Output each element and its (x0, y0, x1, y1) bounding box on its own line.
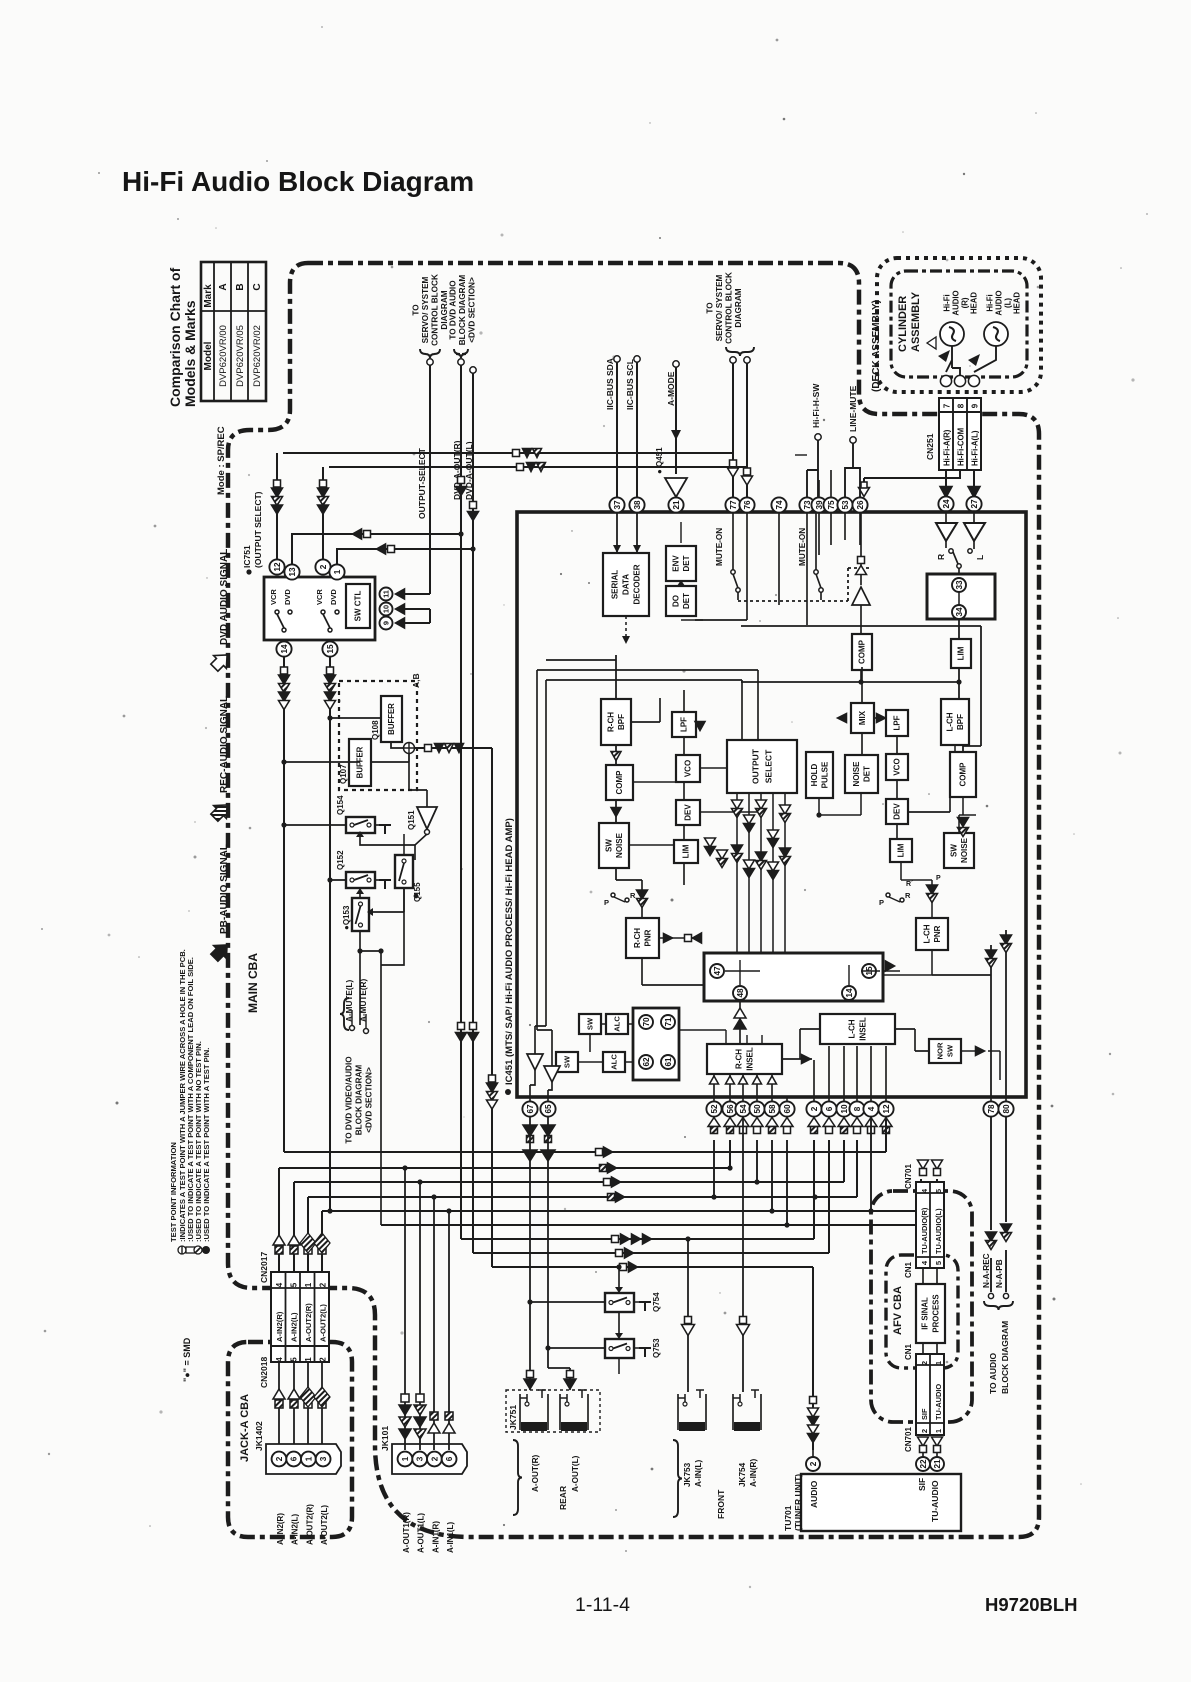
svg-text:SERIAL: SERIAL (611, 570, 620, 599)
svg-text:A-OUT(R): A-OUT(R) (531, 1454, 540, 1492)
svg-text:7: 7 (943, 403, 952, 408)
svg-text:CN701: CN701 (904, 1427, 913, 1452)
bus test points (513, 450, 520, 457)
wire mix lpf (862, 667, 950, 839)
wire A-MODE (673, 361, 679, 367)
svg-text:Q154: Q154 (336, 795, 345, 815)
svg-text:A: A (218, 283, 229, 290)
svg-text:<DVD SECTION>: <DVD SECTION> (468, 277, 477, 343)
wire buffers (330, 718, 409, 762)
TU701 tuner box (801, 1474, 961, 1531)
NOISE DET box (845, 755, 878, 793)
wire bus 1239 (461, 1140, 814, 1239)
svg-text:CONTROL BLOCK: CONTROL BLOCK (431, 274, 440, 346)
svg-text:DET: DET (682, 593, 691, 609)
svg-text:77: 77 (729, 500, 738, 510)
wire bus 1267 (492, 1267, 813, 1450)
svg-text:A-IN2(L): A-IN2(L) (291, 1514, 300, 1545)
buffer dotted box A B (339, 681, 417, 790)
wire pin verticals down (714, 1140, 787, 1225)
wire sw noise r (959, 815, 976, 833)
wire 34 down (958, 619, 960, 699)
wire DVD-A-OUT R (460, 365, 462, 1239)
svg-text:DEV: DEV (893, 803, 902, 820)
ENV DET box (666, 546, 696, 581)
svg-text:8: 8 (957, 403, 966, 408)
svg-text:LIM: LIM (682, 844, 691, 858)
servo brace mid (726, 347, 754, 356)
svg-text:SERVO/ SYSTEM: SERVO/ SYSTEM (715, 274, 724, 341)
svg-text:IIC-BUS SCL: IIC-BUS SCL (625, 359, 635, 410)
SW CTL box (346, 584, 370, 628)
svg-text:2: 2 (809, 1461, 818, 1466)
wire bpf mesh left (546, 655, 616, 880)
svg-text:DECODER: DECODER (633, 564, 642, 604)
transistor Q152 (346, 872, 375, 888)
svg-text:33: 33 (955, 580, 964, 590)
svg-text:A-OUT1(L): A-OUT1(L) (417, 1513, 426, 1553)
bus arrows left (604, 1147, 613, 1157)
svg-text:Q108: Q108 (371, 720, 380, 740)
transistor Q107 buffer (349, 739, 371, 786)
svg-text:A,B: A,B (411, 673, 421, 688)
wire IC751 top (277, 453, 473, 564)
svg-text:BLOCK DIAGRAM: BLOCK DIAGRAM (1000, 1321, 1010, 1394)
svg-text:PNR: PNR (933, 925, 942, 942)
svg-text:DIAGRAM: DIAGRAM (734, 288, 743, 327)
svg-text:Model: Model (203, 341, 214, 370)
svg-text:R: R (630, 891, 636, 900)
svg-text:B: B (235, 283, 246, 290)
svg-text:4: 4 (275, 1357, 284, 1362)
wire bus output select top (283, 452, 733, 454)
JK101 test points (401, 1394, 409, 1402)
svg-text:21: 21 (933, 1459, 942, 1469)
svg-text:SW CTL: SW CTL (354, 591, 363, 622)
IC751 pins bottom (276, 641, 291, 656)
svg-text:CN2017: CN2017 (259, 1252, 269, 1283)
wire to front jacks (688, 1117, 743, 1392)
svg-text:14: 14 (280, 644, 289, 654)
svg-text:8: 8 (853, 1106, 862, 1111)
svg-text:60: 60 (783, 1104, 792, 1114)
svg-text:JK751: JK751 (508, 1405, 518, 1430)
svg-text:A-IN2(R): A-IN2(R) (275, 1311, 284, 1342)
svg-text:1-11-4: 1-11-4 (575, 1594, 630, 1616)
wire CN2017 stems (279, 1254, 322, 1272)
svg-text:BLOCK DIAGRAM: BLOCK DIAGRAM (458, 275, 467, 346)
DECK ASSEMBLY frame (877, 258, 1041, 392)
svg-text:SIF: SIF (917, 1478, 927, 1491)
R-CH INSEL box (707, 1044, 782, 1074)
svg-text:DVP620VR/02: DVP620VR/02 (252, 325, 263, 387)
IC451 top pins (609, 497, 624, 512)
svg-text:2: 2 (275, 1456, 284, 1461)
svg-text:6: 6 (445, 1456, 454, 1461)
servo brace left (420, 349, 440, 358)
svg-text:SELECT: SELECT (763, 749, 773, 783)
svg-text:2: 2 (810, 1106, 819, 1111)
svg-text:L-CH: L-CH (848, 1019, 857, 1038)
svg-text:A-OUT2(R): A-OUT2(R) (304, 1303, 313, 1342)
svg-text:JK101: JK101 (380, 1426, 390, 1451)
wire outputs select down (737, 793, 785, 953)
svg-text::USED TO INDICATE A TEST POINT: :USED TO INDICATE A TEST POINT WITH A TE… (202, 1048, 211, 1242)
svg-text:JACK-A CBA: JACK-A CBA (239, 1394, 251, 1462)
svg-text:DVD AUDIO SIGNAL: DVD AUDIO SIGNAL (219, 549, 230, 645)
connector JK1402 (266, 1444, 341, 1474)
svg-text:N-A-REC: N-A-REC (982, 1253, 991, 1288)
svg-text:COMP: COMP (615, 770, 624, 795)
svg-text:Q107: Q107 (339, 764, 348, 784)
triangle amps left (527, 1054, 543, 1070)
MAIN CBA frame (228, 263, 1039, 1537)
svg-text:R-CH: R-CH (606, 712, 615, 732)
svg-text:Hi-Fi-COM: Hi-Fi-COM (957, 428, 966, 466)
svg-text:Hi-Fi Audio Block Diagram: Hi-Fi Audio Block Diagram (122, 166, 474, 197)
svg-text:(R): (R) (960, 297, 969, 308)
svg-text:NOISE: NOISE (615, 832, 624, 858)
svg-text:74: 74 (775, 500, 784, 510)
svg-text:DO: DO (671, 595, 680, 607)
CYLINDER ASSEMBLY frame (891, 271, 1027, 377)
svg-text:AUDIO: AUDIO (951, 290, 960, 315)
svg-text:JK754: JK754 (738, 1462, 747, 1487)
wire Q753 down (618, 1358, 620, 1374)
pin 24 (938, 496, 953, 511)
svg-text:9: 9 (382, 621, 391, 625)
wire pin14 down (283, 657, 285, 1152)
svg-text:Hi-Fi: Hi-Fi (942, 294, 951, 311)
svg-text:A-MODE: A-MODE (666, 371, 676, 406)
wire OUTPUT-SELECT (404, 365, 430, 623)
svg-text:CN2018: CN2018 (259, 1357, 269, 1388)
DO DET box (666, 586, 696, 616)
svg-text:A-OUT2(L): A-OUT2(L) (320, 1505, 329, 1545)
CN2017 test points (275, 1246, 283, 1254)
svg-text:L-CH: L-CH (922, 924, 931, 943)
svg-text:MUTE-ON: MUTE-ON (798, 528, 807, 566)
svg-text:COMP: COMP (959, 762, 968, 787)
svg-text:2: 2 (319, 564, 328, 569)
svg-text:PNR: PNR (643, 929, 652, 946)
NOR SW box (929, 1039, 961, 1063)
svg-text:Hi-Fi-H-SW: Hi-Fi-H-SW (811, 383, 821, 428)
wire pins 73 39 75 (819, 470, 831, 497)
svg-text:P: P (936, 875, 941, 882)
svg-text:ASSEMBLY: ASSEMBLY (910, 291, 922, 352)
svg-text:TU-AUDIO(L): TU-AUDIO(L) (934, 1208, 943, 1254)
summing node (404, 743, 415, 754)
svg-text:R´: R´ (906, 881, 914, 888)
svg-text:24: 24 (942, 499, 951, 509)
test point symbols (178, 1246, 186, 1254)
op-amp IC451 block (517, 512, 1026, 1097)
svg-text:4: 4 (867, 1106, 876, 1111)
svg-text:BUFFER: BUFFER (387, 703, 396, 735)
jack JK753 A-IN L (678, 1394, 706, 1430)
wire CN251 to IC451 (864, 470, 974, 505)
wire bus 1197 (308, 1140, 857, 1290)
MIX box (851, 703, 874, 733)
svg-text:"●" = SMD: "●" = SMD (182, 1337, 192, 1382)
IC751 pins top (269, 559, 284, 574)
LPF box L (672, 712, 696, 737)
IC451 bottom pins (522, 1101, 537, 1116)
60-71 pin box (633, 1008, 679, 1080)
svg-text:TO DVD VIDEO/AUDIO: TO DVD VIDEO/AUDIO (345, 1056, 354, 1144)
wire feedback 682 (741, 681, 959, 683)
svg-text:Hi-Fi-A(L): Hi-Fi-A(L) (971, 430, 980, 466)
pin 22 (916, 1457, 930, 1471)
svg-text:JK753: JK753 (683, 1462, 692, 1487)
svg-text:3: 3 (319, 1456, 328, 1461)
svg-text:TO: TO (412, 304, 421, 316)
comparison chart table (201, 262, 266, 401)
deck terminals (940, 375, 951, 386)
pin 2 tuner (806, 1457, 820, 1471)
svg-text:A-OUT(L): A-OUT(L) (571, 1455, 580, 1492)
svg-text:JK1402: JK1402 (254, 1421, 264, 1451)
svg-text:CN1: CN1 (904, 1343, 913, 1360)
wire jack-a stems (279, 1362, 322, 1450)
svg-text:VCR: VCR (269, 589, 278, 605)
OUTPUT SELECT box (727, 740, 797, 793)
svg-text:OUTPUT-SELECT: OUTPUT-SELECT (417, 447, 427, 519)
svg-text:4: 4 (275, 1282, 284, 1287)
connector CN2018 (271, 1346, 329, 1362)
svg-text:TO DVD AUDIO: TO DVD AUDIO (449, 280, 458, 340)
wire out select top (537, 670, 758, 1030)
svg-text:50: 50 (753, 1104, 762, 1114)
svg-text:ALC: ALC (613, 1016, 622, 1032)
JACK-A CBA frame (228, 1342, 352, 1537)
svg-text:L-CH: L-CH (945, 712, 954, 731)
svg-text:12: 12 (273, 562, 282, 572)
svg-text:3: 3 (416, 1456, 425, 1461)
svg-text:Mark: Mark (203, 284, 214, 308)
dvd brace (454, 349, 468, 358)
svg-text:A-OUT2(L): A-OUT2(L) (319, 1304, 328, 1342)
svg-text:R-CH: R-CH (735, 1049, 744, 1069)
wire comp r (955, 745, 963, 815)
svg-text:(L): (L) (1003, 298, 1012, 308)
svg-text:SIF: SIF (920, 1408, 929, 1420)
svg-text:DET: DET (862, 766, 871, 782)
svg-text:27: 27 (970, 499, 979, 509)
transistor Q155 (395, 855, 413, 888)
svg-text:<DVD SECTION>: <DVD SECTION> (365, 1067, 374, 1133)
svg-text:H9720BLH: H9720BLH (985, 1594, 1078, 1615)
svg-text:TU-AUDIO: TU-AUDIO (930, 1480, 940, 1522)
svg-text:1: 1 (401, 1456, 410, 1461)
svg-text:P: P (879, 898, 884, 907)
wire pins 77 76 (733, 363, 747, 497)
COMP box L (606, 765, 633, 800)
svg-text:1: 1 (304, 1456, 313, 1461)
svg-text:SW: SW (586, 1017, 595, 1030)
svg-text:75: 75 (827, 500, 836, 510)
svg-text:11: 11 (382, 590, 391, 598)
svg-text:CN251: CN251 (925, 433, 935, 460)
transistor Q753 (605, 1339, 634, 1358)
wire bus 1225 (381, 1179, 937, 1225)
transistor Q151 (417, 807, 437, 829)
svg-text:CN701: CN701 (904, 1164, 913, 1189)
svg-text:SW: SW (604, 839, 613, 852)
wire lim r (901, 862, 932, 880)
transistor Q153 (352, 898, 369, 931)
REC audio arrow (208, 799, 233, 824)
wire mute region (695, 513, 860, 625)
svg-text:IC751: IC751 (242, 545, 252, 568)
svg-text:54: 54 (739, 1104, 748, 1114)
head wiring (946, 346, 996, 376)
transistor Q754 (605, 1293, 634, 1312)
wire bus 1182 (294, 1140, 844, 1290)
svg-text:AUDIO: AUDIO (809, 1480, 819, 1508)
svg-text:●Q153: ●Q153 (342, 905, 351, 930)
switch P R left (625, 898, 629, 902)
sw alc row2 (556, 1052, 578, 1072)
test stacks under output select (732, 800, 743, 809)
svg-text:SERVO/ SYSTEM: SERVO/ SYSTEM (421, 276, 430, 343)
connector CN1 lower strip (916, 1354, 944, 1435)
HOLD PULSE box (806, 752, 833, 798)
wire pin15 down (329, 657, 331, 1211)
VCO box L (676, 755, 700, 782)
svg-text:1: 1 (304, 1357, 313, 1362)
svg-text:1: 1 (333, 569, 342, 574)
svg-text:NOISE: NOISE (960, 837, 969, 863)
wire 47 48 box (725, 960, 900, 985)
transistor Q451 (665, 478, 687, 497)
svg-text:A-IN1(R): A-IN1(R) (431, 1521, 440, 1553)
wire to JK751 (530, 1117, 570, 1390)
LIM box L (674, 840, 698, 863)
wire pin4 over (870, 1117, 872, 1211)
svg-text:A-IN1(L): A-IN1(L) (446, 1522, 455, 1553)
svg-text:Q155: Q155 (413, 882, 422, 902)
DVD audio arrow (208, 649, 233, 674)
svg-text:● Q451: ● Q451 (655, 447, 664, 474)
svg-text:Mode : SP/REC: Mode : SP/REC (216, 426, 227, 495)
svg-text:LPF: LPF (680, 717, 689, 732)
svg-text:HEAD: HEAD (1012, 292, 1021, 314)
svg-text:COMP: COMP (858, 639, 867, 664)
svg-text:LPF: LPF (893, 715, 902, 730)
wire feedback 626 (741, 626, 981, 752)
svg-text:ALC: ALC (610, 1054, 619, 1070)
svg-text:A-IN2(R): A-IN2(R) (276, 1513, 285, 1545)
svg-text:(OUTPUT SELECT): (OUTPUT SELECT) (253, 491, 263, 568)
svg-text:56: 56 (726, 1104, 735, 1114)
svg-text:PB-AUDIO SIGNAL: PB-AUDIO SIGNAL (219, 844, 230, 934)
svg-text:2: 2 (920, 1361, 929, 1365)
svg-text:1: 1 (304, 1282, 313, 1287)
wire Hi-Fi-H-SW (815, 434, 821, 440)
svg-text:AUDIO: AUDIO (994, 290, 1003, 315)
svg-text:FRONT: FRONT (716, 1489, 726, 1519)
L head (984, 322, 1008, 346)
wire JK101 stems (405, 1168, 449, 1450)
wire sum out (415, 748, 492, 1267)
bottom test symbols (708, 1118, 720, 1127)
svg-text:DVD: DVD (329, 589, 338, 605)
svg-text:6: 6 (825, 1106, 834, 1111)
svg-text:TU701: TU701 (783, 1505, 793, 1531)
svg-text:34: 34 (955, 607, 964, 617)
svg-text:48: 48 (736, 988, 745, 998)
svg-text:N-A-PB: N-A-PB (995, 1259, 1004, 1288)
svg-text:A-IN2(L): A-IN2(L) (290, 1312, 299, 1342)
wire CN701 to TU701 (923, 1453, 937, 1458)
svg-text:IF SINAL: IF SINAL (921, 1297, 930, 1330)
svg-text:6: 6 (290, 1456, 299, 1461)
IC751 right pins (380, 588, 393, 601)
svg-text:80: 80 (1002, 1104, 1011, 1114)
svg-text:2: 2 (920, 1429, 929, 1433)
IF SINAL PROCESS box (916, 1284, 945, 1343)
bottom pin stems (529, 1097, 531, 1101)
wire sw alc (578, 1024, 633, 1062)
svg-text:R: R (905, 891, 911, 900)
svg-text:MAIN CBA: MAIN CBA (246, 953, 260, 1013)
REAR brace (513, 1440, 522, 1515)
serial data decoder (603, 553, 649, 616)
svg-text:13: 13 (288, 567, 297, 577)
svg-text:(TUNER UNIT): (TUNER UNIT) (793, 1474, 803, 1531)
svg-text:DATA: DATA (622, 574, 631, 595)
COMP box right top (852, 634, 872, 670)
svg-text:Comparison Chart of: Comparison Chart of (167, 267, 183, 407)
svg-text:37: 37 (613, 500, 622, 510)
svg-text:TEST POINT INFORMATION: TEST POINT INFORMATION (169, 1142, 178, 1242)
svg-text:R: R (936, 554, 946, 560)
svg-text:26: 26 (856, 500, 865, 510)
svg-text:REC-AUDIO SIGNAL: REC-AUDIO SIGNAL (219, 696, 230, 793)
svg-text:A-OUT1(R): A-OUT1(R) (402, 1512, 411, 1553)
svg-text:LINE-MUTE: LINE-MUTE (848, 385, 858, 432)
svg-text:21: 21 (672, 500, 681, 510)
svg-text:38: 38 (633, 500, 642, 510)
wire right col down (991, 930, 1006, 1097)
svg-text:53: 53 (841, 500, 850, 510)
svg-text:58: 58 (768, 1104, 777, 1114)
svg-text:PROCESS: PROCESS (932, 1294, 941, 1332)
svg-text:REAR: REAR (558, 1486, 568, 1510)
connector CN2017 (271, 1272, 329, 1346)
svg-text:SW: SW (563, 1055, 572, 1068)
wire bus 1152 (284, 1117, 886, 1152)
svg-text:LIM: LIM (957, 646, 966, 660)
svg-text:BPF: BPF (617, 714, 626, 730)
svg-text:IC451 (MTS/ SAP/ Hi-Fi AUDIO: IC451 (MTS/ SAP/ Hi-Fi AUDIO PROCESS/ Hi… (504, 818, 515, 1085)
PB audio arrow (208, 939, 233, 964)
svg-text:PULSE: PULSE (820, 761, 829, 788)
svg-text:76: 76 (743, 500, 752, 510)
svg-text:HOLD: HOLD (810, 763, 819, 786)
svg-text:70: 70 (642, 1017, 651, 1027)
svg-text:Hi-Fi: Hi-Fi (985, 294, 994, 311)
svg-text:INSEL: INSEL (746, 1047, 755, 1071)
svg-text:TO: TO (706, 302, 715, 314)
svg-text:TU-AUDIO: TU-AUDIO (934, 1384, 943, 1420)
svg-text:SW: SW (949, 844, 958, 857)
svg-text:CONTROL BLOCK: CONTROL BLOCK (725, 272, 734, 344)
FRONT brace (673, 1440, 682, 1517)
svg-text:65: 65 (544, 1104, 553, 1114)
